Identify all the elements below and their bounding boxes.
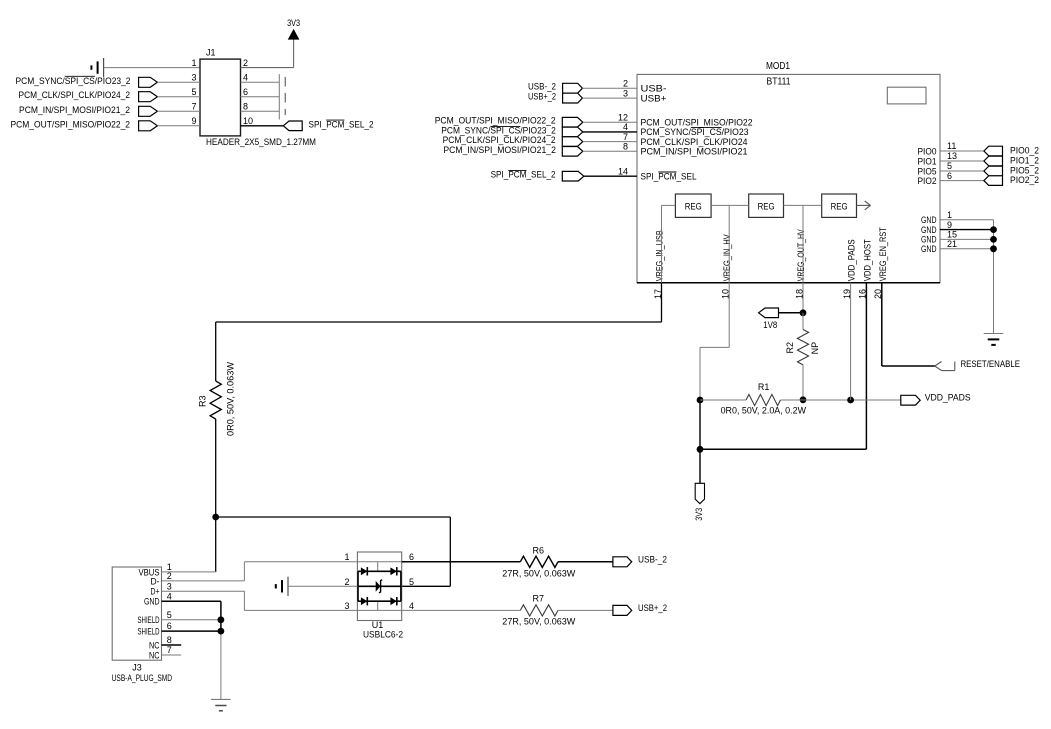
- svg-text:8: 8: [243, 102, 248, 112]
- wire U1 pin 4 to R7: [402, 609, 521, 611]
- net RESET: pin 20 down and right: [882, 283, 935, 366]
- regulator block REG (1): [675, 194, 711, 217]
- svg-text:PIO5_2: PIO5_2: [1010, 166, 1039, 176]
- svg-text:USB+_2: USB+_2: [638, 603, 667, 613]
- svg-text:6: 6: [947, 171, 952, 181]
- flag SPI_PCM_SEL_2 at J1: [283, 121, 302, 131]
- wire GND pin 21: [940, 248, 994, 250]
- net VREG_OUT_HV: pin 18 stub below box: [802, 283, 804, 313]
- junction node 1V8: [800, 309, 807, 316]
- svg-text:J3: J3: [132, 662, 142, 672]
- wire R7 to USB+_2 flag: [558, 609, 613, 611]
- U1 middle vertical lower segment (gray): [377, 601, 379, 610]
- svg-text:GND: GND: [921, 244, 937, 255]
- signal flag PCM_IN flag: [139, 106, 158, 116]
- svg-text:NP: NP: [810, 342, 820, 355]
- svg-text:4: 4: [623, 122, 628, 132]
- svg-text:2: 2: [344, 577, 349, 587]
- svg-text:PCM_CLK/SPI_CLK/PIO24_2: PCM_CLK/SPI_CLK/PIO24_2: [19, 90, 131, 100]
- svg-text:PCM_OUT/SPI_MISO/PIO22_2: PCM_OUT/SPI_MISO/PIO22_2: [435, 116, 556, 126]
- wire: [583, 141, 637, 143]
- svg-text:13: 13: [947, 151, 957, 161]
- wire U1 pin 2 to ground: [288, 585, 357, 587]
- svg-text:R6: R6: [533, 545, 545, 555]
- pin 18 stub inside box: [802, 205, 804, 282]
- net VREG_IN_USB: pin 17 down and left to R3: [216, 283, 662, 381]
- resistor R7: [520, 605, 558, 616]
- svg-text:VREG_EN_RST: VREG_EN_RST: [878, 227, 889, 281]
- svg-text:PCM_IN/SPI_MOSI/PIO21: PCM_IN/SPI_MOSI/PIO21: [641, 147, 748, 158]
- junction node SHIELD 6: [218, 628, 225, 635]
- svg-text:4: 4: [243, 73, 248, 83]
- signal flag PCM_OUT flag: [139, 121, 158, 131]
- wire pin 13: [940, 160, 984, 162]
- wire J1 pin 1 to ground: [104, 67, 200, 69]
- wire: [583, 131, 637, 133]
- wire GND pin 1: [940, 219, 994, 221]
- wire pin 5: [940, 170, 984, 172]
- flag PCM_OUT/SPI_MISO/PIO22_2: [562, 117, 583, 127]
- junction node VDD_PADS pin 19: [847, 397, 854, 404]
- svg-text:VDD_HOST: VDD_HOST: [862, 239, 873, 281]
- svg-text:9: 9: [191, 116, 196, 126]
- svg-text:PCM_CLK/SPI_CLK/PIO24_2: PCM_CLK/SPI_CLK/PIO24_2: [443, 135, 556, 145]
- svg-text:5: 5: [947, 161, 952, 171]
- NC solid vertical line: [278, 74, 280, 119]
- wire: [157, 96, 200, 98]
- wire junction right to U1 pin5 column: [216, 517, 451, 586]
- flag USB-_2: [563, 83, 583, 93]
- svg-text:HEADER_2X5_SMD_1.27MM: HEADER_2X5_SMD_1.27MM: [206, 137, 316, 147]
- IC U1 outer box: [357, 552, 401, 621]
- wire REG2 to REG3: [784, 204, 822, 206]
- wire pin 14: [584, 175, 637, 177]
- power symbol 3V3 (arrow up): [289, 30, 299, 39]
- svg-text:USB-A_PLUG_SMD: USB-A_PLUG_SMD: [112, 673, 173, 683]
- U1 pin row 1-6 (gray): [357, 561, 401, 563]
- svg-text:11: 11: [947, 141, 956, 151]
- J1 pin numbers right: 2,4,6,8,10: [243, 58, 253, 126]
- wire GND pin 9: [940, 229, 994, 231]
- wire junction down to 3V3 flag: [699, 400, 701, 483]
- svg-text:21: 21: [947, 239, 957, 249]
- svg-text:VREG_IN_HV: VREG_IN_HV: [722, 234, 733, 282]
- junction dots on GND bus: [990, 226, 997, 252]
- svg-text:12: 12: [618, 112, 628, 122]
- wire: [157, 110, 200, 112]
- ground (rotated) at U1 pin 2: [276, 577, 288, 596]
- overline on SPI_CS (inner pin name): [691, 127, 722, 129]
- svg-text:0R0, 50V, 0.063W: 0R0, 50V, 0.063W: [226, 361, 236, 436]
- svg-text:7: 7: [191, 102, 196, 112]
- flag PIO1_2: [984, 156, 1003, 166]
- svg-text:GND: GND: [144, 597, 160, 608]
- wire pin 2: [582, 87, 637, 89]
- regulator block REG (3): [822, 194, 857, 217]
- svg-text:4: 4: [409, 601, 414, 611]
- svg-text:PCM_IN/SPI_MOSI/PIO21_2: PCM_IN/SPI_MOSI/PIO21_2: [443, 145, 556, 155]
- wire: [583, 150, 637, 152]
- module MOD1 box: [637, 74, 940, 282]
- U1 pin row 2-5 (gray): [357, 585, 401, 587]
- arrow out of REG3: [857, 201, 871, 210]
- J1 pin numbers left: 1,3,5,7,9: [191, 58, 196, 126]
- svg-text:PCM_SYNC/SPI_CS/PIO23_2: PCM_SYNC/SPI_CS/PIO23_2: [441, 125, 556, 135]
- wire REG1 to REG2: [711, 204, 749, 206]
- svg-text:RESET/ENABLE: RESET/ENABLE: [961, 359, 1021, 369]
- svg-text:SHIELD: SHIELD: [138, 626, 160, 637]
- flag 1V8 (pointing left): [759, 308, 779, 318]
- svg-text:USB+_2: USB+_2: [528, 92, 556, 102]
- wire pin 11: [940, 150, 984, 152]
- svg-text:1: 1: [344, 552, 349, 562]
- overline on SPI_CS (outer label): [490, 125, 520, 127]
- svg-text:REG: REG: [685, 201, 702, 212]
- junction node VDD_HOST corner: [697, 446, 704, 453]
- svg-text:NC: NC: [149, 650, 160, 661]
- flag PCM_IN/SPI_MOSI/PIO21_2: [562, 147, 583, 157]
- wire: [583, 121, 637, 123]
- svg-text:PIO1_2: PIO1_2: [1010, 156, 1039, 166]
- net VDD_HOST: pin 16 down and left: [700, 283, 866, 450]
- svg-text:2: 2: [167, 571, 172, 581]
- U1 internal middle rail (bold): [358, 585, 401, 587]
- NC dashed vertical line: [284, 77, 286, 115]
- svg-text:VDD_PADS: VDD_PADS: [925, 393, 971, 403]
- svg-text:5: 5: [191, 87, 196, 97]
- wire R1 right to VDD_PADS flag: [781, 399, 901, 401]
- svg-text:8: 8: [623, 142, 628, 152]
- svg-text:REG: REG: [831, 201, 848, 212]
- svg-text:5: 5: [409, 577, 414, 587]
- zener diode (middle, pointing right): [376, 580, 383, 593]
- flag USB+_2 (right): [613, 605, 632, 615]
- svg-text:USB-_2: USB-_2: [638, 554, 667, 564]
- svg-text:R2: R2: [785, 342, 795, 354]
- connector J3 box: [112, 567, 161, 660]
- GND bus vertical wire: [993, 220, 995, 334]
- wire GND pin 4: [162, 601, 221, 631]
- svg-text:U1: U1: [372, 620, 384, 630]
- wire D- pin 2 to U1 pin 1: [162, 562, 358, 581]
- U1 pin row 3-4 (gray): [357, 609, 401, 611]
- svg-text:1V8: 1V8: [763, 320, 777, 330]
- wire U1 pin 6 to R6: [402, 561, 521, 563]
- U1 middle vertical upper segment (gray): [377, 562, 379, 572]
- svg-text:R7: R7: [533, 594, 545, 604]
- stub NC pin 8: [162, 644, 182, 646]
- U1 pin numbers: [344, 552, 414, 611]
- wire J1 pin 2 to 3V3: [241, 67, 294, 69]
- pin 17 stub inside box: [661, 205, 663, 282]
- MOD1 box bottom edge (bold): [637, 282, 940, 284]
- svg-text:1: 1: [947, 210, 952, 220]
- svg-text:14: 14: [618, 166, 628, 176]
- stub NC pin 7: [162, 654, 182, 656]
- flag PCM_SYNC/SPI_CS/PIO23_2: [562, 127, 583, 137]
- svg-text:27R, 50V, 0.063W: 27R, 50V, 0.063W: [502, 569, 576, 579]
- flag RESET/ENABLE (open style): [935, 362, 955, 371]
- svg-text:3V3: 3V3: [287, 18, 300, 28]
- wire 1V8 flag to junction: [779, 312, 804, 314]
- junction node R1 left: [697, 397, 704, 404]
- svg-text:3: 3: [344, 601, 349, 611]
- flag VDD_PADS: [901, 395, 920, 405]
- diode D2 (top-right): [390, 567, 396, 575]
- flag PIO0_2: [984, 146, 1003, 156]
- svg-text:REG: REG: [758, 201, 775, 212]
- flag PIO5_2: [984, 166, 1003, 176]
- diode D3 (bottom-left): [361, 597, 367, 605]
- overline on PCM (inner): [658, 171, 676, 173]
- svg-text:USBLC6-2: USBLC6-2: [363, 629, 403, 639]
- svg-text:9: 9: [947, 220, 952, 230]
- svg-text:R3: R3: [198, 395, 208, 407]
- wires J1 pins 4,6,8 to NC line: [241, 82, 280, 111]
- wire VREG_IN_USB pin line to REG1: [662, 204, 676, 206]
- svg-text:7: 7: [623, 132, 628, 142]
- overline on SPI_CS of PCM_SYNC label: [65, 75, 95, 77]
- svg-text:3: 3: [167, 581, 172, 591]
- wire: [157, 81, 200, 83]
- svg-text:PIO2_2: PIO2_2: [1010, 175, 1039, 185]
- svg-text:SPI_PCM_SEL: SPI_PCM_SEL: [641, 172, 697, 183]
- flag PIO2_2: [984, 176, 1003, 186]
- svg-text:PIO0_2: PIO0_2: [1010, 146, 1039, 156]
- svg-text:PIO2: PIO2: [918, 176, 937, 187]
- pin 10 stub inside box: [728, 205, 730, 282]
- wire: [157, 125, 200, 127]
- svg-text:27R, 50V, 0.063W: 27R, 50V, 0.063W: [502, 617, 576, 627]
- connector J1 box: [200, 59, 241, 136]
- net VREG_IN_HV: pin 10 down, jog left, down to R1 row: [700, 283, 729, 400]
- diode D1 (top-left): [361, 567, 367, 575]
- svg-text:J1: J1: [206, 48, 216, 58]
- svg-text:MOD1: MOD1: [766, 61, 790, 72]
- wire R1 left: [700, 399, 746, 401]
- flag USB+_2: [563, 93, 583, 103]
- resistor R2: [797, 330, 808, 365]
- svg-text:3: 3: [623, 88, 628, 98]
- svg-text:SHIELD: SHIELD: [138, 615, 160, 626]
- svg-text:1: 1: [191, 58, 196, 68]
- signal flag PCM_SYNC flag: [139, 77, 158, 87]
- wire pin 6: [940, 180, 984, 182]
- net VDD_PADS: pin 19 down: [850, 283, 852, 400]
- svg-text:3V3: 3V3: [694, 508, 704, 521]
- svg-text:4: 4: [167, 592, 172, 602]
- svg-text:PCM_SYNC/SPI_CS/PIO23_2: PCM_SYNC/SPI_CS/PIO23_2: [16, 76, 131, 86]
- junction node SHIELD 5: [218, 616, 225, 623]
- svg-text:VREG_OUT_HV: VREG_OUT_HV: [796, 229, 807, 281]
- signal flag PCM_CLK flag: [139, 92, 158, 102]
- svg-text:2: 2: [623, 78, 628, 88]
- svg-text:USB+: USB+: [641, 93, 667, 104]
- wire GND down to ground: [220, 631, 222, 699]
- svg-text:VREG_IN_USB: VREG_IN_USB: [655, 230, 666, 281]
- ground symbol right of MOD1: [984, 334, 1004, 345]
- U1 internal diode network frame (bold): [358, 571, 401, 601]
- wire D+ pin 3 to U1 pin 3: [162, 591, 358, 610]
- wire VBUS pin 1: [162, 571, 216, 573]
- svg-text:VDD_PADS: VDD_PADS: [847, 239, 858, 281]
- svg-text:USB-_2: USB-_2: [528, 82, 556, 92]
- svg-text:6: 6: [409, 552, 414, 562]
- wire GND pin 15: [940, 238, 994, 240]
- wire SHIELD pin 6: [162, 630, 221, 632]
- wire R2 bottom to R1 row: [802, 365, 804, 400]
- flag PCM_CLK/SPI_CLK/PIO24_2: [562, 137, 583, 147]
- resistor R6: [520, 556, 558, 567]
- regulator block REG (2): [749, 194, 784, 217]
- svg-text:SPI_PCM_SEL_2: SPI_PCM_SEL_2: [491, 170, 556, 180]
- svg-text:PCM_OUT/SPI_MISO/PIO22_2: PCM_OUT/SPI_MISO/PIO22_2: [11, 119, 131, 129]
- power flag 3V3 (pointing down): [695, 483, 704, 503]
- svg-text:3: 3: [191, 73, 196, 83]
- wire junction to R2: [802, 313, 804, 330]
- diode D4 (bottom-right): [390, 597, 396, 605]
- overline on PCM (outer): [508, 170, 526, 172]
- junction node VBUS/R3: [212, 514, 219, 521]
- svg-text:SPI_PCM_SEL_2: SPI_PCM_SEL_2: [309, 119, 374, 129]
- svg-text:5: 5: [167, 610, 172, 620]
- wire pin 3: [582, 97, 637, 99]
- wire R3 bottom to VBUS: [215, 419, 217, 572]
- junction node R2/R1: [800, 396, 807, 403]
- svg-text:2: 2: [243, 58, 248, 68]
- svg-text:6: 6: [243, 87, 248, 97]
- svg-text:6: 6: [167, 621, 172, 631]
- ground (rotated) at J1 pin 1: [91, 58, 103, 77]
- ground symbol below J3: [211, 699, 231, 710]
- wire SHIELD pin 5: [162, 619, 221, 621]
- svg-text:PCM_IN/SPI_MOSI/PIO21_2: PCM_IN/SPI_MOSI/PIO21_2: [19, 105, 130, 115]
- overline on PCM: [326, 119, 344, 121]
- resistor R1: [746, 394, 781, 405]
- flag USB-_2 (right): [613, 557, 632, 567]
- resistor R3: [210, 381, 221, 419]
- svg-text:7: 7: [167, 645, 172, 655]
- wire R6 to USB-_2 flag: [558, 561, 613, 563]
- flag SPI_PCM_SEL_2 at MOD1: [562, 171, 584, 181]
- small internal rectangle (antenna block): [887, 87, 926, 104]
- svg-text:BT111: BT111: [767, 77, 791, 88]
- svg-text:0R0, 50V, 2.0A, 0.2W: 0R0, 50V, 2.0A, 0.2W: [721, 406, 807, 416]
- wire J1 pin 10 (SPI_PCM_SEL_2 net): [241, 125, 284, 127]
- svg-text:10: 10: [243, 116, 253, 126]
- svg-text:8: 8: [167, 635, 172, 645]
- svg-text:R1: R1: [758, 382, 770, 392]
